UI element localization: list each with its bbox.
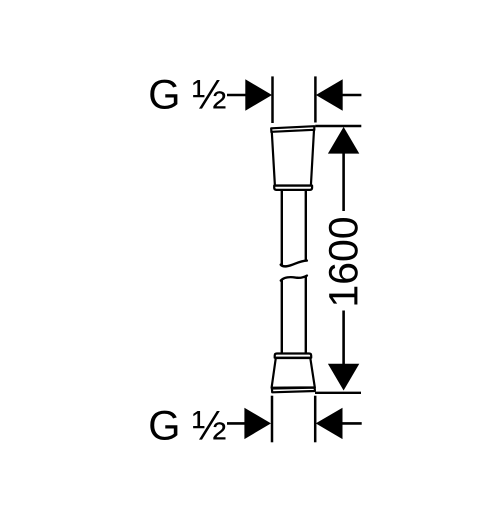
label 1600 dimension value xyxy=(329,218,358,304)
arrow: 1600 dimension up arrowhead xyxy=(328,127,359,154)
label G 1/2 bottom xyxy=(150,411,225,440)
wire: bottom dimension left extension line xyxy=(271,396,274,443)
wire: top dimension left extension line xyxy=(271,76,274,123)
wire: bottom dimension right tail line xyxy=(342,422,361,425)
arrow: top dimension right arrowhead xyxy=(316,79,343,110)
wire: 1600 dimension line upper segment xyxy=(342,152,345,211)
wire: bottom dimension right extension line xyxy=(314,396,317,443)
node: hose top conical nut cap disc xyxy=(271,126,314,132)
wire: hose upper break squiggle xyxy=(281,261,307,267)
wire: 1600 dimension bottom extension line xyxy=(315,392,361,394)
label G 1/2 top xyxy=(150,80,225,109)
wire: hose upper segment left wall xyxy=(281,191,283,265)
node: hose top collar ring xyxy=(274,186,312,190)
node: hose bottom conical nut body xyxy=(272,358,315,388)
wire: 1600 dimension top extension line xyxy=(315,125,361,127)
arrow: top dimension left arrowhead xyxy=(245,79,272,110)
wire: hose lower segment right wall xyxy=(305,276,307,354)
node: hose bottom collar ring xyxy=(275,354,312,358)
wire: top dimension right extension line xyxy=(314,76,317,122)
arrow: bottom dimension right arrowhead xyxy=(316,408,343,439)
node: hose top conical nut body xyxy=(272,130,314,186)
wire: hose lower break squiggle xyxy=(281,276,307,281)
node: hose bottom conical nut cap disc xyxy=(272,388,315,393)
wire: bottom dimension left tail line xyxy=(227,422,246,425)
arrow: 1600 dimension down arrowhead xyxy=(328,364,359,391)
wire: top dimension right tail line xyxy=(343,94,362,97)
wire: hose lower segment left wall xyxy=(281,280,283,353)
wire: 1600 dimension line lower segment xyxy=(342,311,345,367)
arrow: bottom dimension left arrowhead xyxy=(244,408,271,439)
wire: top dimension left tail line xyxy=(227,94,246,97)
wire: hose upper segment right wall xyxy=(305,191,307,261)
